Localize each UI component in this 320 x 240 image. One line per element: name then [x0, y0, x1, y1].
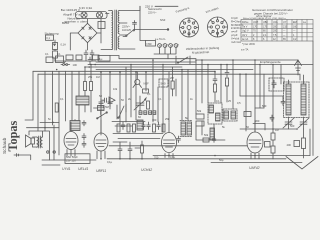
terminal strip a e TA	[154, 38, 179, 59]
pickup jack TA	[102, 97, 115, 103]
resistor R24	[133, 124, 136, 132]
resistor R42	[302, 138, 306, 149]
svg-text:500: 500	[262, 104, 267, 108]
wire right mid	[240, 128, 296, 130]
magic eye EM	[135, 79, 140, 84]
svg-text:10k: 10k	[113, 87, 118, 91]
capacitor C24	[142, 122, 146, 130]
grid cap between tubes	[118, 142, 122, 159]
box near tube4	[265, 142, 271, 148]
svg-text:UAF42: UAF42	[249, 166, 260, 170]
wire links bottom mid	[113, 142, 140, 148]
bus wire 5	[33, 70, 253, 72]
tube socket U2 bottom view	[208, 17, 228, 37]
svg-text:UBF: UBF	[263, 21, 268, 24]
right edge drop	[312, 41, 314, 156]
component legend column	[231, 16, 244, 44]
svg-text:6,3V 0,3A: 6,3V 0,3A	[79, 6, 92, 10]
svg-text:110/125: 110/125	[122, 29, 131, 32]
resistor R22	[153, 124, 156, 132]
capacitor C25 on tube2 line	[99, 99, 103, 107]
tube labels	[62, 166, 260, 173]
svg-text:220 V: 220 V	[145, 5, 153, 9]
bus wire 6	[38, 73, 240, 75]
svg-text:50k: 50k	[197, 109, 202, 113]
demod box	[244, 112, 251, 117]
coupling box K1	[46, 57, 53, 63]
fuse note box	[46, 35, 54, 40]
svg-text:1M: 1M	[96, 75, 100, 79]
svg-text:Röhre: Röhre	[242, 21, 249, 24]
svg-text:Ua V: Ua V	[242, 25, 248, 28]
capacitor C28	[177, 136, 181, 143]
tube V2	[94, 133, 108, 151]
svg-text:0,1: 0,1	[147, 92, 151, 96]
svg-text:Ia mA: Ia mA	[242, 38, 249, 41]
resistor R21	[127, 124, 130, 132]
svg-text:200: 200	[273, 30, 278, 33]
lamp La2	[96, 12, 102, 18]
svg-text:Uk V: Uk V	[242, 34, 248, 37]
svg-text:300: 300	[152, 118, 157, 122]
antenna symbol	[295, 60, 302, 75]
svg-text:50µ: 50µ	[219, 158, 224, 162]
svg-text:NSF: NSF	[160, 18, 166, 22]
variable capacitor C41	[298, 117, 309, 129]
resistor R23	[171, 81, 174, 89]
svg-text:NSF: NSF	[147, 42, 153, 46]
AVC chain	[213, 71, 217, 84]
svg-text:EM: EM	[293, 21, 297, 24]
svg-text:NSF 50µF: NSF 50µF	[66, 155, 78, 159]
svg-text:UCH42: UCH42	[141, 168, 152, 172]
detector row	[109, 121, 247, 146]
tube socket U1 bottom view	[180, 18, 199, 37]
capacitor C21	[121, 122, 125, 130]
box C12a	[66, 55, 73, 60]
svg-text:a e TA 2.L: a e TA 2.L	[155, 38, 166, 41]
svg-text:UY: UY	[283, 21, 287, 24]
bias box	[65, 154, 90, 164]
wire output drop	[50, 125, 55, 160]
mains switch S1	[123, 30, 168, 37]
variable capacitor C40	[283, 117, 294, 129]
svg-text:UEL41: UEL41	[78, 167, 88, 171]
coil L20	[137, 120, 143, 130]
svg-text:220V~: 220V~	[122, 25, 131, 29]
IF transformer T2	[208, 103, 222, 124]
resistor R27 between tubes	[141, 145, 144, 153]
capacitor C16	[82, 121, 86, 126]
svg-text:1M: 1M	[275, 128, 279, 132]
svg-text:0,1: 0,1	[45, 52, 49, 56]
svg-text:M gezeichnet: M gezeichnet	[192, 50, 210, 55]
svg-text:0,1µ: 0,1µ	[107, 160, 113, 164]
resistor R10	[84, 82, 87, 91]
svg-text:0,1: 0,1	[46, 36, 50, 40]
wire trafo taps	[101, 6, 140, 49]
capacitor C26	[108, 99, 112, 107]
IF transformer T3	[223, 109, 237, 121]
bus wire 1	[110, 56, 298, 61]
mains note	[148, 7, 166, 22]
wire bridge right up	[97, 19, 101, 33]
transformer core	[115, 10, 117, 50]
svg-text:220 V~: 220 V~	[148, 11, 157, 15]
lamp La1	[81, 12, 87, 18]
plug P1	[14, 154, 19, 157]
switch position note	[186, 46, 220, 55]
capacitor C42	[270, 115, 274, 121]
mains transformer Tr1 primary	[112, 11, 113, 50]
jack symbol	[63, 64, 65, 66]
capacitor C27	[128, 142, 132, 159]
wire bridge left down	[70, 33, 78, 50]
tube V3	[162, 133, 177, 153]
resistor R41	[271, 146, 275, 153]
dial pointer arrow	[286, 157, 318, 170]
capacitor C53	[90, 50, 94, 58]
svg-text:300: 300	[255, 119, 260, 123]
svg-text:170: 170	[253, 25, 258, 28]
svg-text:0,5M: 0,5M	[103, 105, 109, 109]
speaker terminals	[47, 151, 49, 153]
svg-text:500: 500	[290, 124, 295, 128]
voltage table	[241, 20, 313, 42]
bus wire 4	[96, 66, 182, 68]
switch S2a	[97, 112, 107, 118]
resistor R25	[162, 124, 165, 132]
resistor R40	[271, 133, 275, 140]
bus wire right feed	[240, 74, 300, 80]
capacitor C13	[88, 57, 92, 65]
svg-text:2M: 2M	[170, 76, 174, 80]
resistor R26 vertical	[55, 103, 58, 112]
svg-text:UBF11: UBF11	[96, 169, 106, 173]
svg-text:160: 160	[293, 25, 298, 28]
svg-text:0,1µ: 0,1µ	[170, 155, 176, 159]
bus wire 2	[96, 61, 196, 63]
svg-text:200: 200	[273, 25, 278, 28]
wire right columns	[246, 60, 304, 132]
ferrite coil La	[286, 84, 291, 115]
svg-text:175: 175	[263, 25, 268, 28]
svg-text:0,1: 0,1	[158, 97, 162, 101]
resistor R20	[117, 124, 120, 132]
coil L30	[210, 128, 215, 140]
tube V4	[247, 132, 263, 153]
svg-text:0,5: 0,5	[237, 101, 241, 105]
svg-text:a e TA: a e TA	[241, 48, 249, 52]
dial lamp box	[76, 12, 108, 19]
mains transformer Tr1 secondary	[118, 11, 119, 23]
svg-text:25k: 25k	[88, 75, 93, 79]
svg-text:0,1: 0,1	[60, 97, 64, 101]
svg-text:0,1: 0,1	[216, 99, 220, 103]
svg-text:50k: 50k	[204, 133, 209, 137]
extra box row item	[93, 55, 100, 60]
svg-text:215: 215	[283, 25, 288, 28]
more value labels	[48, 87, 295, 137]
capacitor C43	[281, 97, 285, 106]
svg-text:1µ: 1µ	[99, 57, 103, 61]
cap pair between tubes	[82, 134, 86, 148]
mains capacitor	[133, 21, 137, 31]
band switch S2	[117, 104, 126, 119]
coil L10	[70, 121, 80, 131]
scattered value labels	[45, 52, 291, 164]
primary selector box	[98, 22, 105, 29]
tube V1	[64, 132, 78, 150]
mains drop to fuse	[140, 6, 146, 40]
wire corner	[253, 124, 265, 131]
band switch top	[176, 56, 190, 64]
right dashed box	[269, 78, 284, 91]
wire antenna feed	[240, 96, 283, 108]
svg-text:UCL: UCL	[273, 21, 278, 24]
resistor R28	[147, 101, 150, 109]
svg-text:Empfängererde: Empfängererde	[260, 60, 281, 64]
wire speaker top	[29, 131, 49, 147]
bottom bus lines	[42, 156, 310, 166]
box small	[294, 141, 300, 147]
ferrite coil Lb	[301, 84, 306, 115]
capacitor C15	[73, 120, 77, 125]
legend note top-left	[45, 8, 88, 36]
capacitor C23	[157, 122, 161, 130]
wire caps bottom join	[55, 58, 96, 61]
svg-text:Topas: Topas	[6, 121, 20, 152]
left drop wires	[33, 71, 79, 155]
box 0,1	[143, 89, 149, 93]
box C12b	[76, 55, 82, 60]
voltage table header text	[243, 8, 294, 20]
fuse box Si	[146, 41, 156, 47]
wire bridge bottom	[87, 43, 89, 50]
bus wire 3	[88, 64, 313, 66]
svg-text:400: 400	[287, 143, 292, 147]
trimmer row	[139, 111, 142, 115]
box C14	[98, 56, 110, 62]
mid cluster links	[112, 122, 163, 139]
svg-text:B250: B250	[62, 21, 69, 25]
capacitor C22	[147, 122, 151, 130]
svg-text:0,1A: 0,1A	[61, 43, 67, 47]
svg-text:25V 150: 25V 150	[66, 159, 76, 163]
svg-text:0,1: 0,1	[57, 52, 61, 56]
wire bridge top to lamp box	[87, 19, 89, 23]
speaker LS	[26, 135, 32, 147]
output transformer Tr2	[37, 137, 39, 147]
diode D1	[196, 114, 204, 119]
svg-text:UCH: UCH	[253, 21, 258, 24]
svg-text:*) bei UKW: *) bei UKW	[242, 42, 255, 46]
IF transformer T1	[181, 122, 186, 135]
potentiometer P	[98, 106, 105, 111]
svg-text:25k: 25k	[165, 117, 170, 121]
svg-text:Ug2 V: Ug2 V	[242, 30, 249, 33]
svg-text:mA=mA: mA=mA	[231, 40, 241, 44]
svg-text:100: 100	[73, 63, 78, 67]
dashed box 500	[159, 79, 168, 87]
voltage selector elko stack	[53, 43, 58, 50]
coupling box K2	[56, 56, 64, 63]
AF choke block	[76, 96, 89, 105]
resistor R11	[90, 82, 93, 91]
svg-text:UY41: UY41	[62, 167, 71, 171]
capacitor C52	[84, 50, 88, 58]
bridge rectifier Gr1	[78, 23, 97, 42]
variable capacitor C20	[134, 96, 146, 111]
wire left bottom plug line	[17, 120, 60, 160]
mid vertical wires	[101, 60, 176, 135]
